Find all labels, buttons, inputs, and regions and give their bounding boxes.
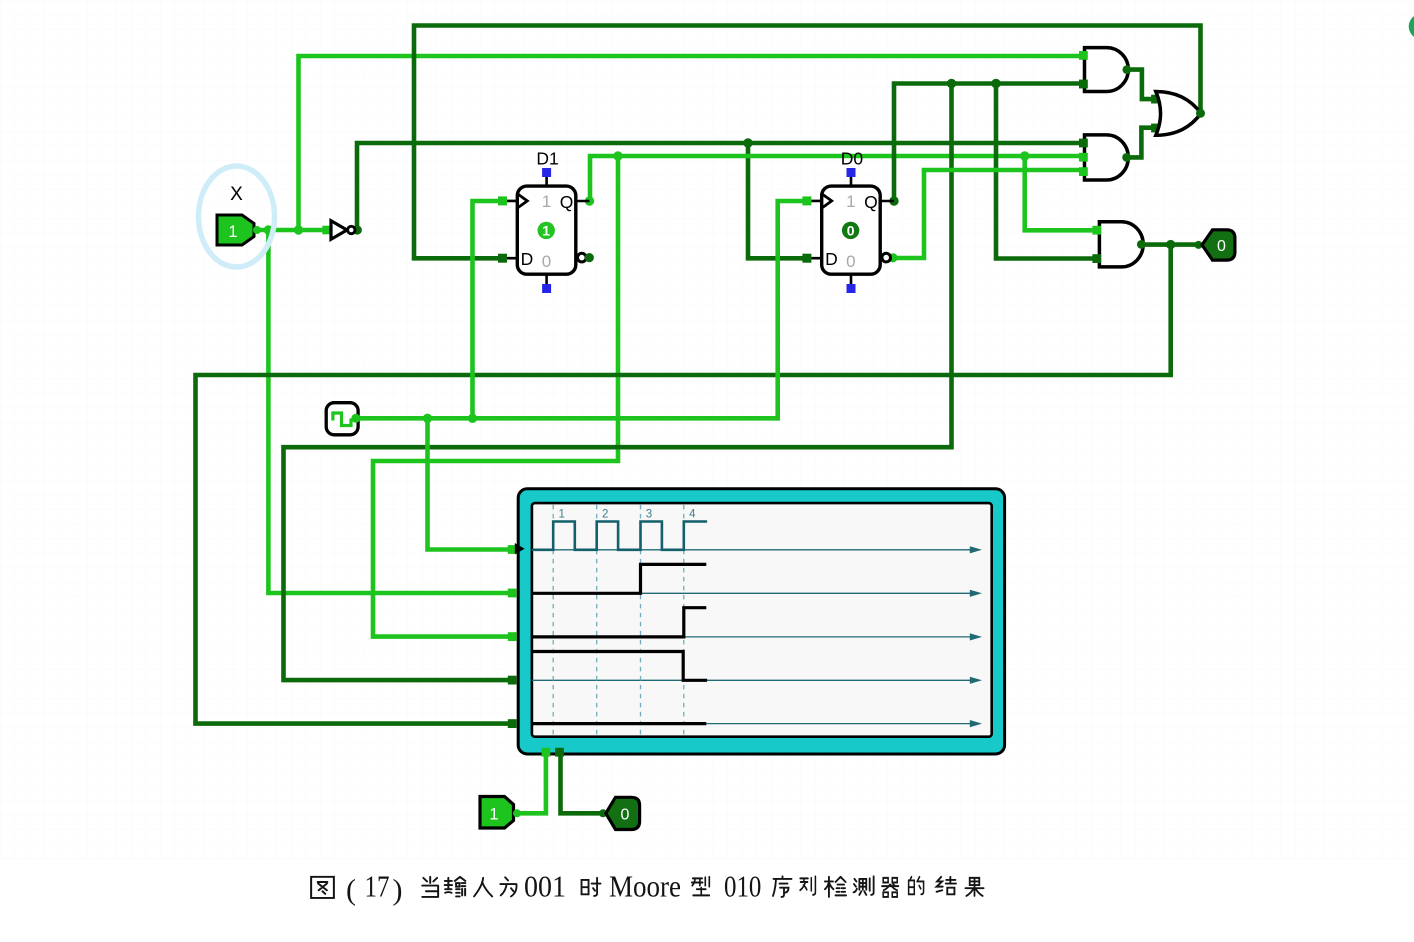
decorative green circle top right	[1409, 14, 1414, 40]
AND gate U3	[1079, 135, 1131, 180]
clock CLK	[326, 403, 360, 435]
node junction Q1-a	[613, 151, 622, 160]
AND gate U2	[1079, 48, 1131, 92]
bottom input pin 1	[480, 797, 521, 829]
wire net-X branch up to AND U2 input 1	[299, 56, 1080, 230]
glyph 当	[422, 877, 438, 897]
node junction CLK-b	[468, 414, 477, 423]
wire net-CLK branch down to scope clock input	[428, 418, 514, 549]
wire net-Q1 branch down to scope input 3	[373, 156, 618, 637]
wire net-NOTX branch down to D0 D input	[748, 143, 803, 258]
highlight ellipse around input X	[199, 166, 275, 267]
svg-text:001: 001	[524, 869, 566, 904]
scope clock waveform	[532, 522, 707, 550]
scope cycle number labels	[559, 509, 697, 521]
D flip-flop D1	[498, 149, 594, 294]
glyph 图	[311, 877, 334, 898]
svg-text:Moore: Moore	[609, 869, 681, 904]
glyph 检	[825, 877, 846, 897]
node junction Q0-a	[947, 79, 956, 88]
wire net-CLK branch up to D1 C input	[473, 201, 499, 418]
glyph 结	[937, 877, 956, 895]
wire net-X branch down to scope input 2	[268, 230, 509, 593]
svg-text:0: 0	[542, 252, 551, 271]
node Q1 output dot	[585, 196, 594, 205]
svg-text:1: 1	[542, 223, 550, 239]
node NOT output dot	[353, 225, 362, 234]
svg-text:1: 1	[542, 192, 551, 211]
caption figure title	[311, 876, 983, 898]
svg-text:D1: D1	[536, 149, 558, 169]
node junction X-b	[294, 225, 303, 234]
wire net-CLK end up to D0 C input	[778, 201, 803, 421]
OR gate U5	[1151, 92, 1205, 136]
wire net-Q0 branch down to AND U4 input 2	[996, 84, 1093, 259]
svg-text:2: 2	[602, 509, 608, 521]
svg-text:X: X	[230, 184, 243, 205]
svg-text:010: 010	[724, 869, 761, 904]
node clock output dot	[351, 414, 360, 423]
output pin Z	[1195, 230, 1235, 260]
AND gate U4	[1092, 222, 1145, 267]
svg-text:): )	[393, 874, 403, 907]
svg-text:3: 3	[646, 509, 652, 521]
scope dashed cycle lines	[553, 505, 684, 735]
svg-text:D: D	[825, 249, 838, 269]
wire scope bottom pin to bottom output 0	[561, 753, 603, 813]
glyph 输	[445, 877, 466, 897]
node OR output dot	[1196, 109, 1205, 118]
glyph 果	[965, 878, 983, 896]
caption latin text	[346, 869, 761, 907]
svg-text:17: 17	[365, 869, 390, 904]
node nQ0 output dot	[888, 253, 897, 262]
svg-text:1: 1	[559, 509, 565, 521]
node junction NOTX	[743, 138, 752, 147]
svg-text:0: 0	[847, 223, 855, 239]
scope waveform row 5 (Z)	[532, 722, 706, 725]
D flip-flop D0	[802, 149, 894, 294]
svg-text:D0: D0	[841, 149, 864, 169]
svg-text:0: 0	[1217, 238, 1226, 255]
node junction X-a	[264, 225, 273, 234]
glyph 列	[800, 876, 815, 895]
glyph 为	[500, 877, 516, 896]
scope time axes with arrows	[532, 550, 976, 724]
svg-text:1: 1	[846, 192, 855, 211]
oscilloscope data graph	[508, 489, 1005, 757]
wire net-nQ0: D0 inverted Q to AND U3 input 3	[892, 170, 1079, 258]
wire net-ORout: OR U5 output feedback to D1 D input	[414, 26, 1201, 259]
glyph 入	[474, 878, 492, 897]
scope clock input arrow	[515, 543, 525, 554]
svg-text:(: (	[346, 874, 356, 907]
scope waveform row 4 (D0.Q)	[532, 652, 707, 681]
svg-text:D: D	[521, 249, 534, 269]
NOT gate U1	[322, 221, 355, 239]
wire net-Z: AND U4 output to output pin Z	[1141, 242, 1197, 247]
input pin X	[217, 184, 261, 245]
svg-text:0: 0	[621, 807, 630, 824]
scope waveform row 2 (X)	[532, 564, 706, 593]
wire net-A1out: AND U2 output to OR U5 input 1	[1127, 70, 1152, 100]
node junction Z	[1166, 240, 1175, 249]
wire net-NOTX: NOT U1 output up and right to AND U3 input 1	[357, 143, 1079, 232]
svg-text:0: 0	[846, 252, 855, 271]
glyph 型	[692, 877, 709, 896]
svg-text:Q: Q	[560, 192, 574, 212]
wire net-Q1: D1 Q output up and right to AND U3 input 2	[590, 156, 1080, 203]
svg-text:1: 1	[489, 806, 498, 824]
glyph 时	[582, 878, 601, 896]
node junction Q1-b	[1020, 151, 1029, 160]
wire net-X: input X to NOT gate input	[254, 228, 323, 233]
scope left pin squares	[508, 545, 517, 554]
svg-text:Q: Q	[864, 192, 878, 212]
wire net-Z branch down-left to scope input 5	[196, 245, 1171, 724]
glyph 器	[882, 878, 899, 897]
glyph 的	[909, 877, 924, 895]
node Q0 output dot	[889, 196, 898, 205]
wire net-Q1 branch down to AND U4 input 1	[1025, 156, 1093, 230]
wire net-CLK: clock output right across	[355, 416, 778, 421]
glyph 序	[773, 876, 792, 897]
bottom output pin 0	[599, 797, 640, 829]
node junction CLK-a	[423, 414, 432, 423]
scope waveform row 3 (D1.Q)	[532, 608, 706, 637]
scope bottom pin squares	[542, 748, 551, 757]
wire net-Q0 branch down-left to scope input 4	[284, 84, 952, 681]
wire bottom input 1 to scope bottom pin	[517, 753, 546, 813]
wire net-Q0: D0 Q output up and right to AND U2 input 2	[894, 84, 1079, 202]
wire net-A2out: AND U3 output to OR U5 input 2	[1127, 128, 1152, 158]
svg-text:1: 1	[228, 223, 237, 241]
node junction Q0-b	[991, 79, 1000, 88]
svg-text:4: 4	[689, 509, 696, 521]
glyph 测	[853, 876, 873, 895]
